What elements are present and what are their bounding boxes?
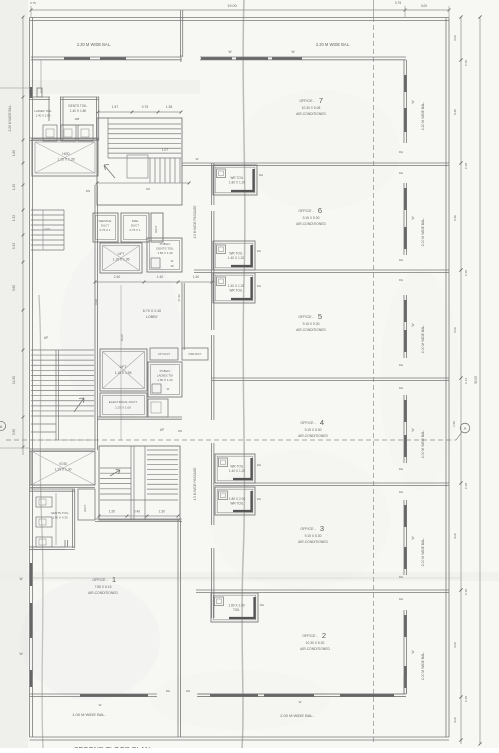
svg-text:1.50 X 1.20: 1.50 X 1.20 [157,378,173,382]
lobby right wall [181,283,183,350]
window bar office7 a [201,57,232,59]
svg-text:2.20 M WIDE BAL.: 2.20 M WIDE BAL. [421,102,425,131]
lift 2 box [100,349,147,391]
stair B1 bottom wall [30,448,96,450]
svg-text:1.40: 1.40 [157,275,164,279]
balcony wall bottom left [30,693,158,695]
svg-text:W: W [299,700,302,704]
svg-text:DH: DH [166,689,170,693]
svg-text:DH: DH [257,284,261,288]
stair B1 treads [31,349,94,351]
office wall right seg 5 [403,610,405,694]
core spine wall 211-330 [211,211,213,330]
svg-text:7: 7 [319,96,323,105]
svg-text:6: 6 [318,206,322,215]
svg-text:WR TOIL: WR TOIL [230,465,243,469]
balcony wall office7 [200,56,406,58]
svg-text:W: W [411,100,415,103]
svg-text:5.13: 5.13 [12,243,16,249]
dim top extension [30,6,32,17]
svg-text:A: A [0,424,3,429]
svg-text:1.50 X 1.20: 1.50 X 1.20 [157,251,173,255]
svg-text:0.15: 0.15 [464,270,468,276]
section marker A right [460,423,470,433]
wc divider line [61,124,94,126]
svg-text:18.20: 18.20 [120,334,124,342]
dim line stair B2 [99,515,178,517]
wall office6/5 [194,269,449,271]
svg-text:10.30 X 5.08: 10.30 X 5.08 [302,106,321,110]
cut-off title text [74,747,150,753]
svg-text:1.25 X 1.35: 1.25 X 1.35 [57,158,74,162]
public gents toilet box [147,238,182,272]
office1 top wall [30,546,66,548]
toilet below wall 483 [215,487,255,515]
svg-text:2.20 M WIDE BAL.: 2.20 M WIDE BAL. [316,42,350,47]
svg-text:WR TOIL: WR TOIL [229,252,242,256]
svg-text:1.57: 1.57 [112,105,119,109]
svg-text:1: 1 [112,575,116,584]
pub toilet block top [30,488,76,490]
wall office4/3 [215,482,449,484]
wc stall 1 [43,125,57,141]
svg-text:PIPE DUCT: PIPE DUCT [189,353,202,356]
svg-text:LIFT: LIFT [120,365,127,369]
svg-text:0.75 X 1: 0.75 X 1 [100,228,111,232]
svg-text:0.75: 0.75 [395,1,401,5]
office window 2a [404,300,406,322]
duct small a [150,348,178,360]
svg-text:LOBBY: LOBBY [146,315,159,319]
svg-text:3.00: 3.00 [453,533,457,539]
svg-text:DH: DH [399,467,403,471]
pub toilet right wall [72,489,74,548]
toilets right wall [96,97,98,140]
stair B2 arrow [110,470,120,477]
svg-text:2.25 X 1.00: 2.25 X 1.00 [115,406,131,410]
void bottom wall [30,484,96,486]
svg-text:3.60: 3.60 [12,285,16,291]
office 7 window a [404,75,406,92]
svg-text:1.90 X 4.30: 1.90 X 4.30 [52,516,68,520]
svg-text:DH: DH [399,575,403,579]
stair B1 arrow [74,398,84,412]
svg-text:9.15 X 5.30: 9.15 X 5.30 [305,534,322,538]
core spine wall 443-525 [211,443,213,525]
svg-text:OFFICE -: OFFICE - [300,421,316,425]
scan crease left [39,295,43,748]
stair B2 bottom wall [95,518,182,520]
svg-text:1.07: 1.07 [162,148,168,152]
svg-text:DH: DH [260,603,264,607]
svg-text:10.30 X 5.30: 10.30 X 5.30 [306,641,325,645]
svg-text:9.15 X 5.30: 9.15 X 5.30 [303,216,320,220]
svg-text:DUCT: DUCT [131,224,139,228]
svg-text:1.40: 1.40 [193,275,200,279]
void box [31,451,95,485]
svg-text:2.20 M WIDE BAL.: 2.20 M WIDE BAL. [8,105,12,132]
office wall right seg 3 [403,395,405,463]
svg-text:7.85 X 6.15: 7.85 X 6.15 [95,585,112,589]
svg-text:1.50: 1.50 [452,421,456,427]
stair B2 box [99,446,180,520]
svg-text:4: 4 [320,418,324,427]
scan mottle [20,90,460,730]
svg-text:0.15: 0.15 [464,60,468,66]
svg-text:1.80 X 1.20: 1.80 X 1.20 [229,181,246,185]
svg-text:DH: DH [399,490,403,494]
svg-text:W: W [228,50,231,54]
svg-text:1.40 X 1.80: 1.40 X 1.80 [36,114,51,118]
office window 4b [404,547,406,569]
dim line lobby [95,281,215,283]
service duct box [93,213,118,242]
svg-text:3.00: 3.00 [453,327,457,333]
office 7 window b [404,108,406,132]
stair B2 dividers [130,446,132,520]
svg-text:WR TOIL: WR TOIL [230,502,243,506]
entrance partition line [40,60,42,93]
svg-text:2.00 M WIDE BAL.: 2.00 M WIDE BAL. [280,713,314,718]
dim left line [22,17,24,455]
svg-text:W: W [411,216,415,219]
svg-text:AIR-CONDITIONED: AIR-CONDITIONED [300,647,330,651]
office1 faint top line [33,577,178,579]
outer wall top [30,17,450,19]
svg-text:0.15: 0.15 [464,589,468,595]
svg-text:1.15 X 1.95: 1.15 X 1.95 [113,258,130,262]
svg-text:UP: UP [146,187,150,191]
window bar top-left [64,57,90,59]
svg-text:W: W [411,650,415,653]
svg-text:OFFICE -: OFFICE - [299,99,315,103]
office window 3a [404,400,406,422]
window bar office7 c [272,57,302,59]
small box next to elec [148,399,168,417]
stair B1 landing lines [31,423,56,425]
svg-text:DUCT: DUCT [101,224,109,228]
svg-text:1.5 M WIDE PASSAGE: 1.5 M WIDE PASSAGE [193,467,197,500]
svg-text:W: W [99,703,102,707]
core spine wall 163-205 [211,163,213,205]
fire duct box [121,213,149,242]
stair B2 treads left [100,467,131,469]
svg-text:0.15: 0.15 [464,163,468,169]
core bottom wall y418 [97,416,182,418]
svg-text:AIR-CONDITIONED: AIR-CONDITIONED [296,222,326,226]
svg-text:3.00: 3.00 [453,642,457,648]
svg-text:DH: DH [257,463,261,467]
svg-text:1.00 M WIDE BAL.: 1.00 M WIDE BAL. [72,712,106,717]
office2 bottom corner [403,676,405,694]
lobby left wall [94,185,96,450]
svg-text:0.75 X 1: 0.75 X 1 [130,228,141,232]
public ladies fixture [152,384,161,393]
svg-text:WB: WB [75,117,80,121]
svg-text:GENTS TOIL: GENTS TOIL [156,247,174,251]
svg-text:1.32: 1.32 [12,215,16,221]
svg-text:1.15 X 1.95: 1.15 X 1.95 [115,371,132,375]
svg-text:AIR-CONDITIONED: AIR-CONDITIONED [296,328,326,332]
svg-text:AIR-CONDITIONED: AIR-CONDITIONED [298,540,328,544]
svg-text:W: W [196,157,199,161]
svg-text:2.00 M WIDE BAL.: 2.00 M WIDE BAL. [421,325,425,354]
outer wall left [29,18,31,738]
svg-text:A: A [464,426,467,431]
svg-text:AIR-CONDITIONED: AIR-CONDITIONED [88,591,118,595]
svg-text:2.00 M WIDE BAL.: 2.00 M WIDE BAL. [421,652,425,681]
pub toilet bottom wall [30,546,76,548]
svg-text:AIR-CONDITIONED: AIR-CONDITIONED [298,434,328,438]
svg-text:DH: DH [257,497,261,501]
svg-text:9.15 X 5.30: 9.15 X 5.30 [305,428,322,432]
core spine wall 335-420 [211,335,213,420]
entrance door leaf [37,88,42,97]
duct beside pub toilet [78,489,95,520]
svg-text:2.00 M WIDE BAL.: 2.00 M WIDE BAL. [421,218,425,247]
svg-text:1.80 X 2.00: 1.80 X 2.00 [228,604,245,608]
svg-text:5.30: 5.30 [453,215,457,221]
svg-text:2.00 M WIDE BAL.: 2.00 M WIDE BAL. [421,538,425,567]
svg-text:SERVICE: SERVICE [99,219,112,223]
svg-text:UP: UP [44,336,48,340]
svg-text:UP: UP [160,428,164,432]
svg-text:1.50: 1.50 [159,510,165,514]
svg-text:OFFICE -: OFFICE - [298,315,314,319]
balcony wall top-left segment [31,56,181,58]
balcony wall top-left end cap [180,55,182,62]
svg-text:WR TOIL: WR TOIL [229,289,242,293]
faint scan line 578 [33,577,460,579]
faint scan band 2 [0,572,499,581]
svg-text:W: W [19,577,22,581]
stair A tread divider [107,118,109,158]
toilet office2 [211,593,258,622]
svg-text:0.40: 0.40 [134,510,140,514]
office window 3b [404,435,406,457]
svg-text:1.38: 1.38 [166,105,173,109]
svg-text:0.75: 0.75 [142,105,149,109]
svg-text:DH: DH [399,258,403,262]
office wall right seg 4 [403,500,405,575]
svg-text:DH: DH [399,386,403,390]
office wall right seg 2 [403,295,405,358]
toilets bottom wall [30,137,100,139]
svg-text:2: 2 [322,631,326,640]
HOD diagonals [35,142,95,173]
svg-text:GENTS TOIL.: GENTS TOIL. [68,104,88,108]
section marker A left [0,421,6,430]
svg-text:DN: DN [86,189,90,193]
section line horizontal [6,439,456,441]
HOD room box [32,139,98,176]
wall office7/6 [182,162,449,164]
stair A2 right bound [63,210,65,250]
svg-text:1.40 X 1.20: 1.40 X 1.20 [228,256,245,260]
svg-text:DH: DH [399,150,403,154]
office1 right wall [177,520,179,737]
svg-text:40: 40 [170,264,174,268]
svg-text:9.90: 9.90 [94,299,98,305]
svg-text:5: 5 [318,312,322,321]
lobby inner line [120,285,122,440]
svg-text:DH: DH [399,597,403,601]
wc stall 3 [78,125,93,141]
stair B2 landing lines [100,499,178,501]
svg-text:LADIES TOI: LADIES TOI [157,374,174,378]
svg-text:W: W [411,536,415,539]
office window 1b [404,227,406,249]
toilet above wall 270 [213,241,255,270]
stair A treads [108,123,181,125]
svg-text:AIR-CONDITIONED: AIR-CONDITIONED [296,112,326,116]
svg-text:1.60: 1.60 [12,150,16,156]
svg-text:3: 3 [320,524,324,533]
left margin band [0,0,28,748]
svg-text:DH: DH [399,278,403,282]
dim line stair top [98,111,181,113]
svg-text:DUCT: DUCT [83,504,87,512]
svg-text:DN: DN [178,429,182,433]
svg-text:PUBLIC: PUBLIC [160,369,172,373]
svg-text:OFFICE -: OFFICE - [302,634,318,638]
svg-text:17.42: 17.42 [177,294,181,302]
svg-text:30.55: 30.55 [474,376,478,384]
small duct box [151,213,163,242]
svg-text:3.00: 3.00 [453,717,457,723]
svg-text:1.50: 1.50 [109,510,115,514]
dim left ext line [0,87,30,89]
office 7 right wall [403,60,405,143]
stair A outer box [97,118,182,205]
svg-text:1.40 X 1.80: 1.40 X 1.80 [70,109,87,113]
lift 1 box [100,243,142,273]
public ladies box [148,362,182,397]
svg-text:1.25 X 1.30: 1.25 X 1.30 [55,468,72,472]
svg-text:W: W [291,50,294,54]
toilets top wall [30,96,51,98]
stair A lower verticals [149,158,151,183]
office window 1a [404,188,406,210]
svg-text:3.00: 3.00 [421,4,427,8]
svg-text:OFFICE -: OFFICE - [92,578,108,582]
dim top line [31,9,449,11]
toilet office6 top [213,165,257,195]
door bar outer wall [30,87,32,98]
office window 5a [404,615,406,637]
toilet above wall 483 [215,454,255,483]
svg-text:PUBLIC: PUBLIC [160,242,172,246]
pub toilet pipes [55,493,57,545]
scan crease center [242,0,245,748]
pub toilet fixtures [36,497,52,507]
window bar top-left 2 [100,57,126,59]
wall office5/4 [212,377,449,379]
svg-text:OFFICE -: OFFICE - [300,527,316,531]
svg-text:W: W [411,323,415,326]
window bar office7 b [236,57,268,59]
stair A arrow [104,165,115,179]
svg-text:2.40: 2.40 [114,275,121,279]
svg-text:VOID: VOID [59,462,68,466]
svg-text:14.30: 14.30 [12,376,16,384]
svg-text:GENTS TOIL.: GENTS TOIL. [51,511,70,515]
electrical duct box [100,393,147,417]
svg-text:FIRE: FIRE [132,219,139,223]
office wall right seg 1 [403,183,405,255]
svg-text:0.15: 0.15 [464,696,468,702]
stair A mid landing [127,155,148,178]
svg-text:WR TOIL: WR TOIL [230,176,243,180]
svg-text:DH: DH [399,363,403,367]
wall office2 bottom [198,693,406,695]
wc stall 2 [61,125,76,141]
toilets divider small [48,97,50,121]
stair B2 treads right [147,449,178,451]
svg-text:DH: DH [257,249,261,253]
dim right line 2 [479,17,481,744]
svg-text:LIFT DUCT: LIFT DUCT [158,353,171,356]
svg-text:DH: DH [186,689,190,693]
svg-text:W: W [171,259,174,263]
balcony wall bottom right [197,693,406,695]
stair B1 rail [55,350,57,440]
office window 2b [404,330,406,352]
svg-text:TOIL: TOIL [233,608,240,612]
public gents fixture [151,258,160,268]
void diagonals [31,451,95,485]
office1 left windows [30,563,32,586]
svg-text:0.75: 0.75 [30,1,36,5]
toilet below wall 270 [213,273,255,303]
svg-text:W: W [19,652,22,656]
svg-text:0.14: 0.14 [464,378,468,384]
svg-text:W: W [167,387,170,391]
svg-text:1.80 X 2.00: 1.80 X 2.00 [229,497,246,501]
svg-text:2.20 M WIDE BAL.: 2.20 M WIDE BAL. [77,42,111,47]
office window 4a [404,505,406,527]
lift 2 diagonals [103,352,145,389]
svg-text:LADIES TOIL: LADIES TOIL [34,109,52,113]
balcony window bars bottom [80,694,148,696]
svg-text:9.15 X 5.30: 9.15 X 5.30 [303,322,320,326]
dim line stair bottom [97,182,189,184]
outer wall bottom [30,736,450,738]
core spine wall 548-618 [211,548,213,618]
svg-text:0.15: 0.15 [464,483,468,489]
outer wall right [445,18,447,738]
svg-text:HOD: HOD [62,152,70,156]
office window 5b [404,666,406,688]
stair A2 treads [31,209,64,211]
svg-text:1.5 M WIDE PASSAGE: 1.5 M WIDE PASSAGE [193,205,197,238]
svg-text:DH: DH [259,173,263,177]
svg-text:5.30: 5.30 [453,109,457,115]
balcony divider top [180,10,182,57]
svg-text:1.40 X 1.20: 1.40 X 1.20 [228,284,245,288]
svg-text:ELECTRICAL DUCT: ELECTRICAL DUCT [109,400,138,404]
svg-text:8.70 X 2.40: 8.70 X 2.40 [143,309,161,313]
svg-text:OFFICE -: OFFICE - [298,209,314,213]
svg-text:DH: DH [399,171,403,175]
svg-text:19.00: 19.00 [227,4,237,8]
duct small b [182,348,208,360]
svg-text:3.50: 3.50 [12,429,16,435]
svg-text:3.00: 3.00 [453,35,457,41]
svg-text:LIFT: LIFT [118,252,125,256]
lift 1 diagonals [103,246,140,271]
faint scan band [0,80,200,94]
